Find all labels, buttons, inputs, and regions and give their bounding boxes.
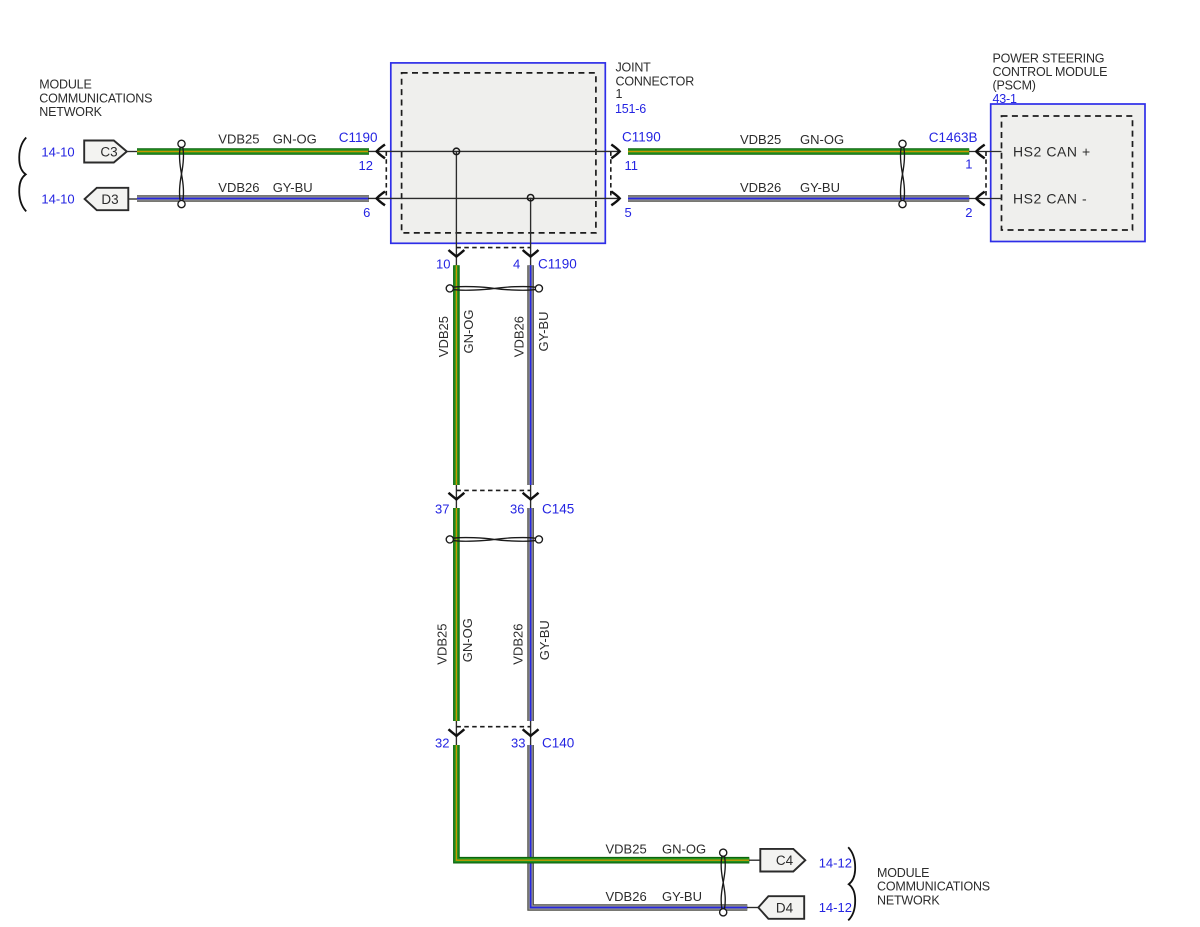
arrow down gray (C140) xyxy=(523,729,539,736)
wire stub C4 xyxy=(749,859,761,861)
svg-text:C1190: C1190 xyxy=(339,130,378,145)
svg-text:MODULE: MODULE xyxy=(39,77,91,91)
svg-text:COMMUNICATIONS: COMMUNICATIONS xyxy=(877,880,990,894)
vertical wire VDB25 green segment 1 xyxy=(453,265,460,485)
svg-text:D4: D4 xyxy=(776,900,794,915)
dashed connector face (C145) xyxy=(456,489,530,491)
svg-text:33: 33 xyxy=(511,736,525,751)
svg-text:D3: D3 xyxy=(101,192,118,207)
arrow down green (C145) xyxy=(449,493,465,500)
thin line through C145 gray xyxy=(530,485,532,508)
svg-text:12: 12 xyxy=(359,158,373,173)
in-box vertical line from junction gray xyxy=(530,198,532,266)
svg-text:(PSCM): (PSCM) xyxy=(993,78,1036,92)
connector D3 xyxy=(85,188,129,210)
wire stub D3 xyxy=(128,198,138,200)
svg-text:GN-OG: GN-OG xyxy=(460,618,475,662)
svg-text:GY-BU: GY-BU xyxy=(537,620,552,660)
arrow left row1 (into left wire) xyxy=(377,145,385,159)
wire VDB26 GY-BU left segment (gray) xyxy=(137,195,369,202)
svg-text:C4: C4 xyxy=(776,853,794,868)
svg-text:14-12: 14-12 xyxy=(819,856,852,871)
thin line through C140 green xyxy=(455,721,457,745)
brace right (bottom-right group) xyxy=(848,847,855,920)
svg-text:GY-BU: GY-BU xyxy=(273,180,313,195)
wire label VDB25 GN-OG (top right) xyxy=(740,132,844,147)
svg-text:151-6: 151-6 xyxy=(615,102,646,116)
svg-text:11: 11 xyxy=(625,158,639,173)
svg-text:10: 10 xyxy=(436,256,450,271)
svg-text:VDB26: VDB26 xyxy=(740,180,781,195)
svg-text:14-10: 14-10 xyxy=(41,145,74,160)
svg-text:VDB25: VDB25 xyxy=(740,132,781,147)
svg-text:C1190: C1190 xyxy=(622,129,661,144)
svg-text:POWER STEERING: POWER STEERING xyxy=(993,51,1105,65)
svg-text:1: 1 xyxy=(616,87,623,101)
wire label VDB25 GN-OG (top left) xyxy=(218,132,316,147)
thin line through C140 gray xyxy=(530,721,532,745)
svg-text:14-12: 14-12 xyxy=(819,900,852,915)
thin line through C145 green xyxy=(455,485,457,508)
svg-text:VDB26: VDB26 xyxy=(510,623,525,664)
wire stub D4 xyxy=(747,907,759,909)
arrow down green (JC bottom) xyxy=(449,250,465,257)
svg-text:36: 36 xyxy=(510,501,524,516)
svg-text:VDB26: VDB26 xyxy=(218,180,259,195)
PSCM module box xyxy=(991,104,1145,242)
svg-text:4: 4 xyxy=(513,256,520,271)
svg-text:VDB25: VDB25 xyxy=(218,132,259,147)
wire VDB26 GY-BU right segment (gray) xyxy=(628,195,969,202)
twisted pair symbol (top right) xyxy=(899,140,906,208)
arrow right row2 xyxy=(611,192,619,206)
svg-text:COMMUNICATIONS: COMMUNICATIONS xyxy=(39,92,152,106)
svg-text:14-10: 14-10 xyxy=(41,192,74,207)
wire VDB25 green L segment (vertical then bottom horizontal) xyxy=(456,745,749,860)
svg-text:C145: C145 xyxy=(542,501,574,516)
arrow down gray (C145) xyxy=(523,493,539,500)
svg-text:GN-OG: GN-OG xyxy=(800,132,844,147)
arrow at PSCM row1 xyxy=(976,145,984,159)
dashed connector face (C1190 bottom of JC) xyxy=(456,247,530,249)
svg-text:C3: C3 xyxy=(100,145,117,160)
twisted pair symbol (top left) xyxy=(178,140,185,208)
svg-text:NETWORK: NETWORK xyxy=(39,105,102,119)
svg-text:GY-BU: GY-BU xyxy=(536,312,551,352)
svg-text:VDB26: VDB26 xyxy=(606,889,647,904)
svg-text:GN-OG: GN-OG xyxy=(662,841,706,856)
arrow down green (C140) xyxy=(449,729,465,736)
svg-text:6: 6 xyxy=(363,205,370,220)
PSCM title xyxy=(993,51,1108,106)
title: module communications network (bottom right) xyxy=(877,866,990,908)
svg-text:43-1: 43-1 xyxy=(993,92,1017,106)
connector C4 xyxy=(760,849,805,872)
wire label VDB26 GY-BU (bottom) xyxy=(606,889,702,904)
svg-text:GY-BU: GY-BU xyxy=(662,889,702,904)
dashed connector face (C1463B) xyxy=(985,152,987,199)
joint connector title xyxy=(615,60,694,116)
joint connector box xyxy=(391,63,606,243)
wire stub C3 xyxy=(127,151,138,153)
wire VDB26 gray L segment (vertical then bottom horizontal) xyxy=(531,745,748,908)
svg-text:VDB25: VDB25 xyxy=(606,841,647,856)
svg-text:1: 1 xyxy=(965,157,972,172)
twisted pair symbol (vertical pair, upper) xyxy=(446,285,542,292)
vertical wire VDB26 gray segment 2 xyxy=(527,508,534,721)
dashed connector face (JC right) xyxy=(610,151,612,198)
PSCM stub line row2 xyxy=(969,198,1002,200)
twisted pair symbol (vertical pair, lower) xyxy=(446,536,542,543)
connector C3 xyxy=(84,141,127,163)
svg-text:CONTROL MODULE: CONTROL MODULE xyxy=(993,65,1108,79)
arrow left row2 xyxy=(377,192,385,206)
in-box wire line row2 xyxy=(368,197,620,199)
svg-text:MODULE: MODULE xyxy=(877,866,929,880)
junction node gray xyxy=(527,195,533,201)
svg-text:VDB26: VDB26 xyxy=(512,316,527,357)
PSCM stub line row1 xyxy=(969,151,1002,153)
connector D4 xyxy=(758,896,804,919)
svg-text:37: 37 xyxy=(435,501,449,516)
svg-text:C1463B: C1463B xyxy=(929,130,978,145)
svg-text:GN-OG: GN-OG xyxy=(273,132,317,147)
junction node green xyxy=(453,148,459,154)
arrow down gray (JC bottom) xyxy=(523,250,539,257)
in-box wire line row1 xyxy=(368,150,620,152)
wire label VDB26 GY-BU (top left) xyxy=(218,180,312,195)
brace left (top-left group) xyxy=(19,138,26,212)
svg-text:VDB25: VDB25 xyxy=(435,623,450,664)
svg-text:NETWORK: NETWORK xyxy=(877,893,940,907)
arrow right row1 (into right wire) xyxy=(611,145,619,159)
svg-text:5: 5 xyxy=(625,205,632,220)
svg-text:CONNECTOR: CONNECTOR xyxy=(616,74,695,88)
wire VDB25 GN-OG right segment (green) xyxy=(628,148,969,155)
dashed connector face (JC left) xyxy=(385,151,387,198)
svg-text:GN-OG: GN-OG xyxy=(461,309,476,353)
svg-text:HS2 CAN -: HS2 CAN - xyxy=(1013,191,1087,207)
in-box vertical line from junction green xyxy=(455,151,457,265)
vertical wire VDB26 gray segment 1 xyxy=(527,265,534,485)
dashed connector face (C140) xyxy=(456,726,530,728)
svg-text:HS2 CAN +: HS2 CAN + xyxy=(1013,144,1091,160)
vertical wire VDB25 green segment 2 xyxy=(453,508,460,721)
wire VDB25 GN-OG left segment (green) xyxy=(137,148,369,155)
svg-text:GY-BU: GY-BU xyxy=(800,180,840,195)
svg-text:C140: C140 xyxy=(542,736,574,751)
title: module communications network (top left) xyxy=(39,77,152,119)
wire label VDB26 GY-BU (top right) xyxy=(740,180,840,195)
svg-text:JOINT: JOINT xyxy=(616,60,652,74)
wire label VDB25 GN-OG (bottom) xyxy=(606,841,707,856)
svg-text:2: 2 xyxy=(965,205,972,220)
svg-text:C1190: C1190 xyxy=(538,256,577,271)
svg-text:VDB25: VDB25 xyxy=(436,316,451,357)
arrow at PSCM row2 xyxy=(976,192,984,206)
twisted pair symbol (bottom right) xyxy=(720,849,727,916)
svg-text:32: 32 xyxy=(435,736,449,751)
